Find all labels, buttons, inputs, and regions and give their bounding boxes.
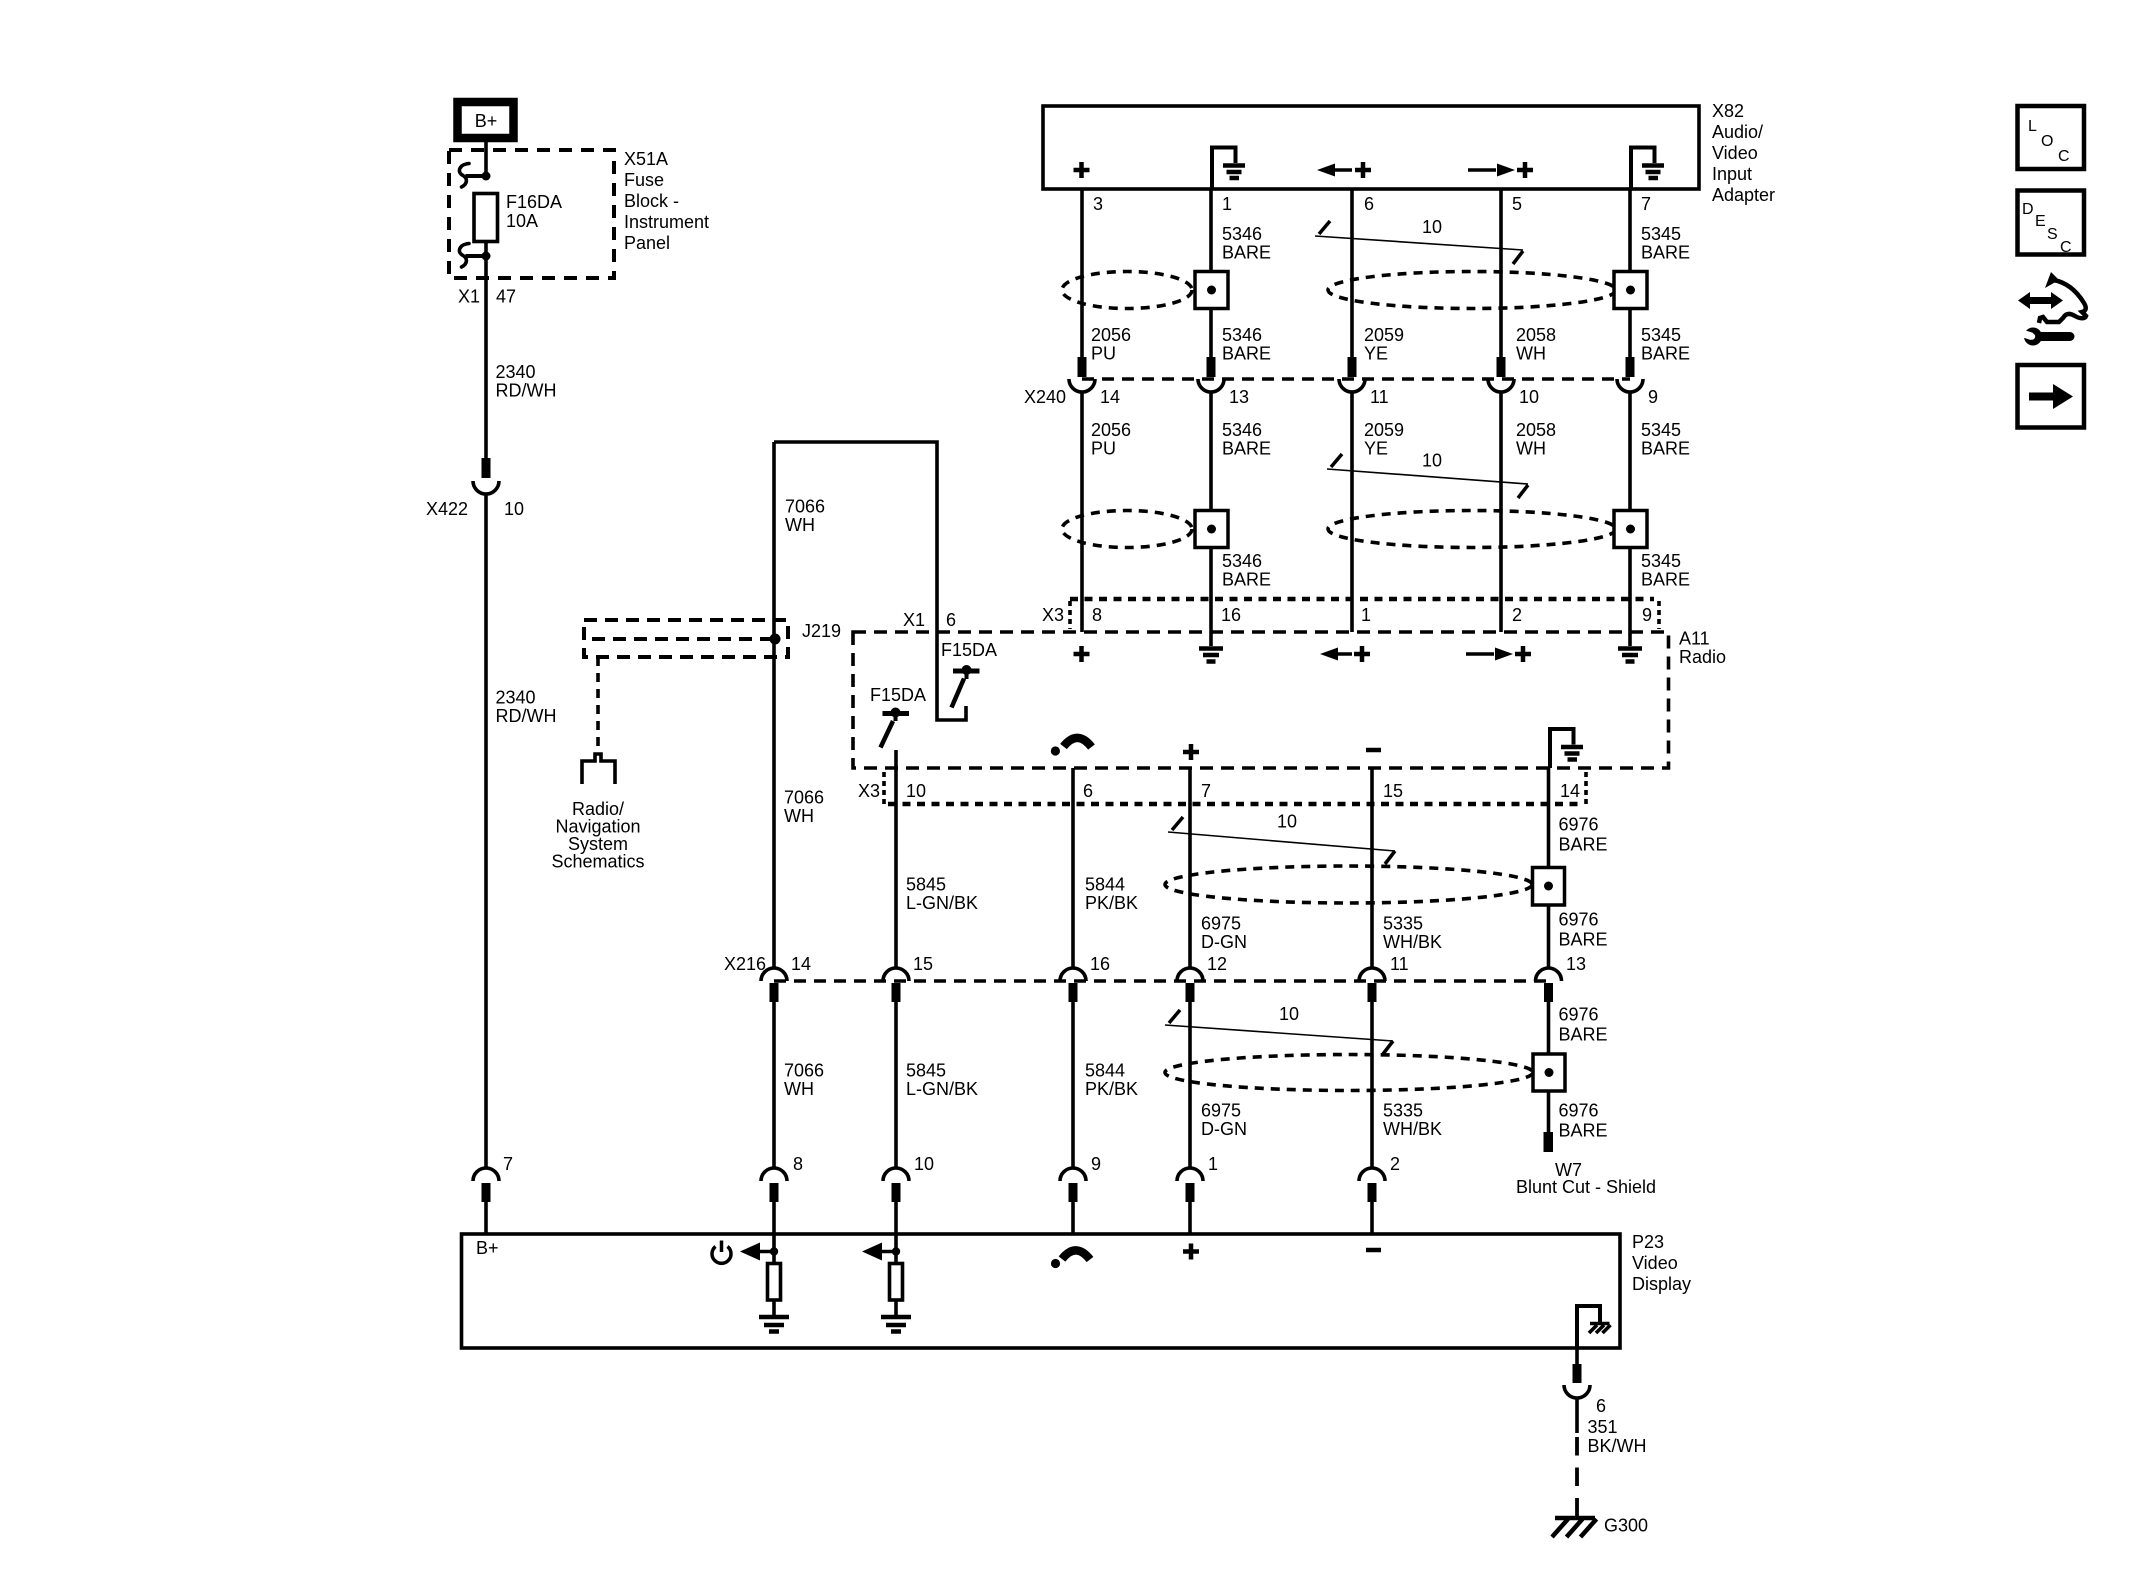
wire label 2340 RD/WH lower [496,688,557,727]
twisted pair symbol row1 [1315,217,1523,264]
svg-text:J219: J219 [802,621,841,641]
svg-text:WH: WH [784,806,814,826]
wires X240 to radio [1082,392,1630,632]
svg-text:351: 351 [1588,1417,1618,1437]
svg-text:WH/BK: WH/BK [1383,932,1442,952]
LOC reference box [2018,106,2085,169]
svg-text:5844: 5844 [1085,875,1125,895]
svg-text:X1: X1 [903,610,925,630]
svg-text:1: 1 [1361,605,1371,625]
off-page reference symbol [582,754,615,784]
radio plus icon pin 7 [1183,744,1199,760]
svg-text:8: 8 [793,1154,803,1174]
svg-text:5335: 5335 [1383,1101,1423,1121]
svg-text:2056: 2056 [1091,325,1131,345]
svg-text:9: 9 [1648,387,1658,407]
off-page reference wire [596,657,600,754]
svg-text:X3: X3 [858,781,880,801]
svg-text:5345: 5345 [1641,551,1681,571]
svg-text:5346: 5346 [1222,224,1262,244]
svg-text:X422: X422 [426,499,468,519]
svg-text:X216: X216 [724,954,766,974]
fuse F15DA right [941,640,997,708]
svg-text:7066: 7066 [785,497,825,517]
svg-text:6: 6 [946,610,956,630]
connector X3 top row of radio [1042,599,1659,629]
svg-text:L-GN/BK: L-GN/BK [906,1079,978,1099]
shield ellipse row2 right [1328,511,1616,548]
wire label 5845 L-GN/BK above X216 [906,875,978,914]
fuse F16DA body [474,194,498,242]
wire label 5335 WH/BK below X216 [1383,1101,1442,1140]
svg-text:B+: B+ [476,1238,499,1258]
svg-text:6976: 6976 [1559,910,1599,930]
svg-text:1: 1 [1222,194,1232,214]
fuse F16DA value label [506,192,562,231]
wire fuse to X422 [484,241,488,458]
X82 left-arrow plus icon pin 6 [1317,162,1371,178]
P23 power icon [712,1241,731,1264]
ground G300 [1552,1516,1648,1538]
svg-text:YE: YE [1364,439,1388,459]
svg-text:6976: 6976 [1559,1101,1599,1121]
svg-text:6975: 6975 [1201,1101,1241,1121]
X82 right-arrow plus icon pin 5 [1468,162,1533,178]
svg-text:BARE: BARE [1641,439,1690,459]
wire label 6976 BARE upper [1559,815,1608,855]
svg-text:WH/BK: WH/BK [1383,1119,1442,1139]
svg-text:B+: B+ [475,111,498,131]
X82 pin labels 3 1 6 5 7 [1093,194,1651,214]
svg-text:5345: 5345 [1641,420,1681,440]
svg-text:6976: 6976 [1559,1005,1599,1025]
svg-text:1: 1 [1208,1154,1218,1174]
wire label 6976 BARE above X216 [1559,910,1608,950]
svg-text:6: 6 [1596,1396,1606,1416]
X82 label [1712,101,1775,205]
svg-text:WH: WH [784,1079,814,1099]
svg-text:PU: PU [1091,344,1116,364]
radio volume icon pin 6 [1051,738,1092,756]
svg-text:6: 6 [1083,781,1093,801]
svg-text:Fuse: Fuse [624,170,664,190]
svg-text:Video: Video [1632,1253,1678,1273]
wire label 6976 BARE below X216 [1559,1005,1608,1045]
svg-text:O: O [2041,133,2053,150]
svg-text:X240: X240 [1024,387,1066,407]
svg-text:5335: 5335 [1383,914,1423,934]
svg-text:BARE: BARE [1559,1121,1608,1141]
svg-text:2056: 2056 [1091,420,1131,440]
svg-text:5: 5 [1512,194,1522,214]
svg-text:2059: 2059 [1364,420,1404,440]
P23 internal chassis ground [1577,1306,1611,1348]
wire 7066 WH main drop [772,442,776,968]
shield termination box row4 [1533,1054,1565,1091]
twisted pair symbol row3 [1168,812,1395,865]
P23 ground pin 8 [759,1317,789,1332]
svg-text:Panel: Panel [624,233,670,253]
wire label 2340 RD/WH upper [496,362,557,401]
svg-text:47: 47 [496,287,516,307]
svg-text:7066: 7066 [784,1061,824,1081]
svg-text:X3: X3 [1042,605,1064,625]
svg-text:6: 6 [1364,194,1374,214]
svg-text:BARE: BARE [1559,1025,1608,1045]
svg-text:5346: 5346 [1222,325,1262,345]
svg-text:C: C [2060,239,2072,256]
svg-text:7: 7 [503,1154,513,1174]
splice J219 [584,620,841,657]
shield ellipse row3 [1165,866,1532,903]
radio ground icon pin 14 [1550,729,1583,768]
svg-text:2: 2 [1390,1154,1400,1174]
battery feed B+ terminal [458,102,514,138]
P23 pin 7 connector [473,1154,513,1234]
svg-text:15: 15 [1383,781,1403,801]
shield termination box row1 wire 5346 [1195,272,1228,309]
wires X216 to P23 [774,1002,1549,1168]
svg-text:10: 10 [914,1154,934,1174]
in-line connector X422 pin 10 [426,458,524,519]
svg-text:2: 2 [1512,605,1522,625]
svg-text:14: 14 [1560,781,1580,801]
twisted pair symbol row2 [1327,451,1528,499]
wires X82 to X240 [1082,189,1630,357]
svg-text:Video: Video [1712,143,1758,163]
shield termination box row3 [1533,868,1565,906]
svg-text:2340: 2340 [496,362,536,382]
svg-text:Audio/: Audio/ [1712,122,1763,142]
svg-text:X82: X82 [1712,101,1744,121]
svg-text:13: 13 [1229,387,1249,407]
radio ground icon pin 16 [1199,632,1223,662]
svg-text:5346: 5346 [1222,551,1262,571]
radio ground icon pin 9 [1618,632,1642,662]
wire label 5844 PK/BK above X216 [1085,875,1138,914]
radio plus icon pin 8 [1074,646,1090,662]
fuse F16DA upper clip [459,164,490,188]
svg-text:E: E [2035,213,2046,230]
off-page reference label Radio/Navigation System Schematics [551,799,644,872]
wire label 7066 WH above X216 [784,788,824,827]
P23 entry connectors pins 8 10 9 1 2 [761,1154,1400,1234]
svg-text:F15DA: F15DA [870,685,926,705]
svg-text:10: 10 [1279,1004,1299,1024]
wire label 5844 PK/BK below X216 [1085,1061,1138,1100]
svg-text:Instrument: Instrument [624,212,709,232]
svg-text:L: L [2028,118,2037,135]
svg-text:5345: 5345 [1641,224,1681,244]
harness routing icon wrench [2018,328,2070,346]
wire label 5346 BARE top [1222,224,1271,263]
wire label 6975 D-GN above X216 [1201,914,1247,953]
svg-text:L-GN/BK: L-GN/BK [906,893,978,913]
svg-text:X51A: X51A [624,149,668,169]
svg-text:2059: 2059 [1364,325,1404,345]
svg-text:9: 9 [1091,1154,1101,1174]
svg-text:Radio: Radio [1679,647,1726,667]
svg-text:BARE: BARE [1222,570,1271,590]
blunt cut W7 stub [1544,1132,1554,1152]
svg-text:2058: 2058 [1516,325,1556,345]
svg-text:5346: 5346 [1222,420,1262,440]
shield ellipse row2 left [1062,511,1192,548]
svg-text:Blunt Cut - Shield: Blunt Cut - Shield [1516,1177,1656,1197]
svg-text:Block -: Block - [624,191,679,211]
svg-text:BARE: BARE [1641,243,1690,263]
X82 ground icon pin 1 [1212,148,1245,189]
wire label 351 BK/WH [1588,1417,1647,1456]
svg-text:5345: 5345 [1641,325,1681,345]
P23 Video Display box [462,1234,1621,1348]
svg-text:BK/WH: BK/WH [1588,1436,1647,1456]
svg-text:2340: 2340 [496,688,536,708]
blunt cut W7 label [1516,1160,1656,1197]
shield ellipse row4 [1165,1055,1533,1091]
DESC reference box [2018,191,2085,257]
svg-text:10: 10 [906,781,926,801]
wire 351 BK/WH dashed [1575,1437,1579,1517]
svg-text:5845: 5845 [906,1061,946,1081]
svg-text:RD/WH: RD/WH [496,381,557,401]
svg-text:BARE: BARE [1641,570,1690,590]
svg-text:3: 3 [1093,194,1103,214]
wire label 7066 WH inside loop [785,497,825,536]
svg-text:D: D [2022,201,2034,218]
svg-text:Schematics: Schematics [551,852,644,872]
svg-text:P23: P23 [1632,1232,1664,1252]
P23 resistor pin 8 [768,1264,781,1316]
wire label 5845 L-GN/BK below X216 [906,1061,978,1100]
svg-text:6976: 6976 [1559,815,1599,835]
svg-text:5845: 5845 [906,875,946,895]
svg-text:WH: WH [1516,439,1546,459]
svg-text:5844: 5844 [1085,1061,1125,1081]
P23 arrow pin 8 [740,1234,778,1263]
fuse F15DA left [870,685,926,748]
svg-text:F15DA: F15DA [941,640,997,660]
svg-text:S: S [2047,226,2058,243]
svg-text:D-GN: D-GN [1201,932,1247,952]
svg-text:10: 10 [1519,387,1539,407]
wire label 6975 D-GN below X216 [1201,1101,1247,1140]
svg-text:11: 11 [1370,387,1389,407]
harness routing icon outline [2039,272,2086,323]
svg-text:7: 7 [1641,194,1651,214]
radio label A11 Radio [1679,629,1726,668]
wire B+ to fuse [484,141,488,177]
wire label 6976 BARE at W7 [1559,1101,1608,1141]
P23 pin 6 connector below box [1564,1348,1606,1433]
connector X3 bottom row of radio [858,772,1586,804]
svg-text:14: 14 [791,954,811,974]
svg-text:2058: 2058 [1516,420,1556,440]
svg-text:Display: Display [1632,1274,1691,1294]
wire label 5345 BARE above radio [1641,551,1690,590]
X82 ground icon pin 7 [1631,148,1664,189]
wire label 7066 WH below X216 [784,1061,824,1100]
svg-text:16: 16 [1221,605,1241,625]
svg-text:PU: PU [1091,439,1116,459]
P23 minus icon pin 2 [1366,1248,1381,1253]
harness routing icon double arrow [2018,292,2063,309]
svg-text:10: 10 [1422,451,1442,471]
radio left-arrow plus icon pin 1 [1320,646,1370,662]
radio right-arrow plus icon pin 2 [1466,646,1531,662]
radio A11 dashed box [853,632,1669,768]
svg-text:10: 10 [1277,812,1297,832]
X82 Audio/Video Input Adapter box [1043,106,1699,189]
shield ellipse row1 right [1328,272,1616,309]
shield termination box row2 wire 5345 [1614,511,1647,548]
svg-text:BARE: BARE [1222,243,1271,263]
svg-text:BARE: BARE [1559,835,1608,855]
fuse F16DA lower clip [459,244,490,268]
twisted pair symbol row4 [1165,1004,1393,1054]
svg-text:WH: WH [785,515,815,535]
fuse block X51A dashed box [449,150,614,278]
svg-text:BARE: BARE [1641,344,1690,364]
svg-text:7: 7 [1201,781,1211,801]
wire label 5335 WH/BK above X216 [1383,914,1442,953]
svg-text:BARE: BARE [1222,439,1271,459]
svg-text:BARE: BARE [1222,344,1271,364]
X82 plus icon pin 3 [1074,162,1090,178]
shield ellipse row1 left [1062,272,1192,309]
svg-text:WH: WH [1516,344,1546,364]
svg-text:RD/WH: RD/WH [496,706,557,726]
shield termination box row2 wire 5346 [1195,511,1228,548]
svg-text:F16DA: F16DA [506,192,562,212]
P23 volume icon pin 9 [1051,1250,1090,1268]
wire labels above X240 [1091,325,1690,364]
svg-text:10: 10 [504,499,524,519]
svg-text:PK/BK: PK/BK [1085,1079,1138,1099]
P23 plus icon pin 1 [1183,1244,1199,1260]
connector X1 pin 47 label [458,287,516,307]
svg-text:X1: X1 [458,287,480,307]
wire label 5345 BARE top [1641,224,1690,263]
wire label 5346 BARE above radio [1222,551,1271,590]
svg-text:YE: YE [1364,344,1388,364]
svg-text:A11: A11 [1679,629,1710,649]
svg-text:PK/BK: PK/BK [1085,893,1138,913]
wire 2340 RD/WH lower segment [484,494,488,1168]
svg-text:D-GN: D-GN [1201,1119,1247,1139]
fuse block label X51A Fuse Block - Instrument Panel [624,149,709,253]
P23 resistor pin 10 [890,1264,903,1316]
svg-text:G300: G300 [1604,1516,1648,1536]
P23 ground pin 10 [881,1317,911,1332]
svg-text:10A: 10A [506,211,538,231]
in-line connector X216 row [724,954,1586,1002]
shield termination box row1 wire 5345 [1614,272,1647,309]
svg-text:Adapter: Adapter [1712,185,1775,205]
svg-text:6975: 6975 [1201,914,1241,934]
connector X1 pin 6 label [903,610,956,630]
wire labels below X240 [1091,420,1690,459]
in-line connector X240 row [1024,357,1658,407]
svg-text:13: 13 [1566,954,1586,974]
wire loop 7066 WH feed to radio X1 pin 6 [774,442,966,720]
P23 label [1632,1232,1691,1294]
next-page arrow box [2018,365,2085,428]
svg-text:Input: Input [1712,164,1752,184]
svg-text:14: 14 [1100,387,1120,407]
svg-text:16: 16 [1090,954,1110,974]
svg-text:C: C [2058,148,2070,165]
svg-text:8: 8 [1092,605,1102,625]
wires radio to X216 [896,750,1549,968]
P23 arrow pin 10 [862,1234,900,1263]
svg-text:15: 15 [913,954,933,974]
svg-text:9: 9 [1642,605,1652,625]
svg-text:10: 10 [1422,217,1442,237]
svg-text:12: 12 [1207,954,1227,974]
svg-text:11: 11 [1390,954,1409,974]
svg-text:BARE: BARE [1559,930,1608,950]
radio minus icon pin 15 [1366,748,1381,753]
svg-text:7066: 7066 [784,788,824,808]
